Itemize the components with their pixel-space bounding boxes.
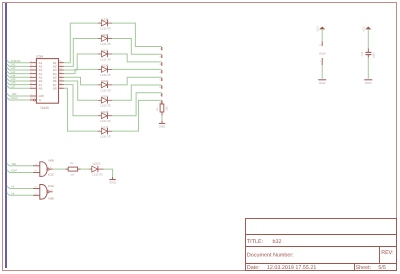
svg-text:GND: GND <box>109 180 117 184</box>
svg-text:VCC: VCC <box>317 26 320 32</box>
svg-text:7408: 7408 <box>48 159 55 163</box>
pad connector PAD7 <box>161 93 163 96</box>
svg-text:LED8: LED8 <box>101 33 109 37</box>
svg-text:100n: 100n <box>372 52 375 58</box>
supply VCC symbol above C11 <box>366 27 370 29</box>
pad connector PAD5 <box>161 78 163 81</box>
svg-text:Sheet:: Sheet: <box>356 265 372 271</box>
IC U1 pin B5 stub, pin 14 <box>59 76 64 78</box>
svg-text:330: 330 <box>70 173 75 176</box>
diode LED8 (LED) <box>98 35 113 41</box>
IC U1 pin B8 stub, pin 11 <box>59 87 64 89</box>
wire net WR from bus to IC1C input pin 9 <box>7 163 33 166</box>
svg-text:R2: R2 <box>70 162 74 165</box>
IC U1 pin B3 stub, pin 16 <box>59 69 64 71</box>
bus B1 (vertical blue bus) <box>5 3 7 268</box>
wire from LED5 cathode to pad 5 <box>112 77 161 85</box>
AND gate IC1C 7408 <box>33 162 53 177</box>
IC U1 pin A2 stub, pin 3 <box>30 65 37 67</box>
IC U1 pin A6 stub, pin 7 <box>30 80 37 82</box>
wire VCC to C11 <box>367 29 369 48</box>
IC U1 pin G stub, pin 19, inverting bubble <box>30 99 34 101</box>
svg-text:WR: WR <box>12 163 17 166</box>
svg-text:LA5: LA5 <box>11 78 16 81</box>
svg-text:LED-3S: LED-3S <box>100 73 111 77</box>
wire from LED9 cathode to pad 1 <box>112 23 161 46</box>
wire net LA5 from bus to pin A6 <box>7 78 30 81</box>
svg-text:LA4: LA4 <box>11 74 16 77</box>
svg-text:IC1P: IC1P <box>319 51 325 55</box>
svg-text:LED-3S: LED-3S <box>100 57 111 61</box>
wire net IOSP from bus to IC1C input pin 10 <box>7 170 33 173</box>
IC U1 pin A7 stub, pin 8 <box>30 84 37 86</box>
supply VCC symbol above IC1P <box>320 27 324 29</box>
capacitor C11 100n <box>365 48 371 57</box>
IC U1 74245 body <box>36 59 58 104</box>
diode LED2 (LED) <box>98 128 113 134</box>
svg-text:KSGC: KSGC <box>11 97 19 100</box>
wire net LA6 from bus to pin A7 <box>7 82 30 85</box>
svg-text:Date:: Date: <box>247 265 260 271</box>
svg-text:IC5A: IC5A <box>36 55 44 59</box>
pad connector PAD8 <box>161 101 163 104</box>
svg-text:GND: GND <box>159 125 167 129</box>
wire net HI from bus to IC1D input pin 12 <box>7 186 33 189</box>
svg-text:LED2: LED2 <box>101 125 109 129</box>
svg-text:GND: GND <box>319 81 327 85</box>
IC1P pin VCC stub, pin 14 <box>321 42 323 47</box>
wire LED1 cathode to ground <box>104 169 113 177</box>
ground GND below C11 <box>364 79 372 81</box>
wire net LA1 from bus to pin A2 <box>7 64 30 67</box>
svg-text:WR: WR <box>12 93 17 96</box>
svg-text:LA2: LA2 <box>11 67 16 70</box>
IC U1 pin B7 stub, pin 12 <box>59 84 64 86</box>
IC U1 pin A8 stub, pin 9 <box>30 87 37 89</box>
svg-text:A8: A8 <box>39 86 43 90</box>
svg-text:b32: b32 <box>273 239 282 245</box>
wire net LA4 from bus to pin A5 <box>7 75 30 78</box>
wire from B3 to LED7 anode <box>64 54 98 70</box>
svg-text:LED-3S: LED-3S <box>100 88 111 92</box>
diode LED5 (LED) <box>98 82 113 88</box>
svg-text:LED-3S: LED-3S <box>100 42 111 46</box>
wire R1 to ground <box>161 116 163 121</box>
ground GND below LED1 <box>112 177 114 180</box>
IC U1 pin A5 stub, pin 6 <box>30 76 37 78</box>
diode LED4 (LED) <box>98 97 113 103</box>
svg-text:330: 330 <box>166 106 169 111</box>
svg-text:LED-3S: LED-3S <box>100 135 111 139</box>
IC U1 pin A4 stub, pin 5 <box>30 73 37 75</box>
svg-text:HI: HI <box>12 186 15 189</box>
AND gate IC1D 7408 <box>33 185 53 200</box>
svg-text:LED-3S: LED-3S <box>92 172 103 176</box>
resistor R2 330 (horizontal) <box>66 168 69 170</box>
wire from B5 to LED5 anode <box>64 77 98 85</box>
diode LED6 (LED) <box>98 66 113 72</box>
svg-text:LED-3S: LED-3S <box>100 104 111 108</box>
IC U1 pin DIR stub, pin 1 <box>30 95 37 97</box>
wire from LED8 cathode to pad 2 <box>112 39 161 55</box>
svg-text:LED9: LED9 <box>101 17 109 21</box>
wire IC1C output to R2 <box>53 168 66 170</box>
svg-text:IOSP: IOSP <box>11 170 18 173</box>
ground GND below IC1P <box>318 79 326 81</box>
wire from B4 to LED6 anode <box>64 69 98 73</box>
svg-text:IC1D: IC1D <box>48 184 54 188</box>
IC U1 pin B2 stub, pin 17 <box>59 65 64 67</box>
resistor R1 330 (vertical) <box>161 100 163 104</box>
wire from B6 to LED4 anode <box>64 81 98 100</box>
pad connector PAD1 <box>161 47 163 50</box>
wire net LA3 from bus to pin A4 <box>7 71 30 74</box>
wire R2 to LED1 <box>81 168 90 170</box>
svg-text:R1: R1 <box>156 107 159 111</box>
svg-text:5/5: 5/5 <box>378 265 386 271</box>
IC1P pin GND stub, pin 7 <box>321 58 323 65</box>
wire C11 to ground <box>367 58 369 79</box>
svg-text:LED-3S: LED-3S <box>100 119 111 123</box>
title block frame <box>246 219 397 271</box>
pad connector PAD6 <box>161 86 163 89</box>
IC U1 pin B6 stub, pin 13 <box>59 80 64 82</box>
wire net HI from bus to IC1D input pin 13 <box>7 193 33 196</box>
svg-text:B8: B8 <box>53 86 57 90</box>
pad connector PAD3 <box>161 62 163 65</box>
IC U1 pin B4 stub, pin 15 <box>59 73 64 75</box>
wire from LED4 cathode to pad 6 <box>112 85 161 100</box>
svg-text:LA1: LA1 <box>11 63 16 66</box>
wire from LED6 cathode to pad 4 <box>112 68 161 70</box>
IC U1 pin A1 stub, pin 2 <box>30 62 37 64</box>
wire from B8 to LED2 anode <box>64 88 98 131</box>
svg-text:C11: C11 <box>361 51 364 56</box>
svg-text:IC1C: IC1C <box>48 173 54 177</box>
diode LED7 (LED) <box>98 51 113 57</box>
wire from LED7 cathode to pad 3 <box>112 54 161 62</box>
wire net WR from bus to pin DIR <box>7 93 30 96</box>
svg-text:TITLE:: TITLE: <box>247 239 263 245</box>
svg-text:GND: GND <box>365 81 373 85</box>
svg-text:HI: HI <box>12 192 15 195</box>
svg-text:LA7: LA7 <box>11 85 16 88</box>
pad connector PAD2 <box>161 55 163 58</box>
ground GND below R1 <box>161 121 163 124</box>
wire net ATMGM from bus to pin A1 <box>7 60 30 63</box>
IC U1 pin A3 stub, pin 4 <box>30 69 37 71</box>
svg-text:LED5: LED5 <box>101 79 109 83</box>
wire from B7 to LED3 anode <box>64 85 98 116</box>
wire IC1P pin 7 to ground <box>321 65 323 79</box>
svg-text:Document Number:: Document Number: <box>247 252 294 258</box>
svg-text:74245: 74245 <box>40 106 49 110</box>
wire from LED2 cathode to pad 8 <box>112 100 161 131</box>
svg-text:LED-3S: LED-3S <box>100 27 111 31</box>
pad connector PAD4 <box>161 70 163 73</box>
diode LED1 (LED) <box>89 166 103 172</box>
svg-text:7408: 7408 <box>48 196 55 200</box>
svg-text:VCC: VCC <box>363 26 366 32</box>
svg-text:LED1: LED1 <box>93 161 101 165</box>
svg-text:ATMGM: ATMGM <box>11 60 22 63</box>
wire from B2 to LED8 anode <box>64 39 98 67</box>
wire VCC to IC1P pin 14 <box>321 29 323 42</box>
svg-text:LED4: LED4 <box>101 95 109 99</box>
svg-text:LED6: LED6 <box>101 64 109 68</box>
svg-text:LED3: LED3 <box>101 110 109 114</box>
diode LED3 (LED) <box>98 113 113 119</box>
svg-text:LA6: LA6 <box>11 82 16 85</box>
wire from B1 to LED9 anode <box>64 23 98 63</box>
IC U1 pin B1 stub, pin 18 <box>59 62 64 64</box>
wire from LED3 cathode to pad 7 <box>112 93 161 116</box>
svg-text:12.03.2019 17.55.21: 12.03.2019 17.55.21 <box>267 265 316 271</box>
diode LED9 (LED) <box>98 20 113 26</box>
wire net KSGC from bus to pin G <box>7 97 30 100</box>
wire net LA7 from bus to pin A8 <box>7 86 30 89</box>
svg-text:LA3: LA3 <box>11 71 16 74</box>
wire net LA2 from bus to pin A3 <box>7 67 30 70</box>
svg-text:LED7: LED7 <box>101 48 109 52</box>
svg-text:REV:: REV: <box>381 250 393 256</box>
